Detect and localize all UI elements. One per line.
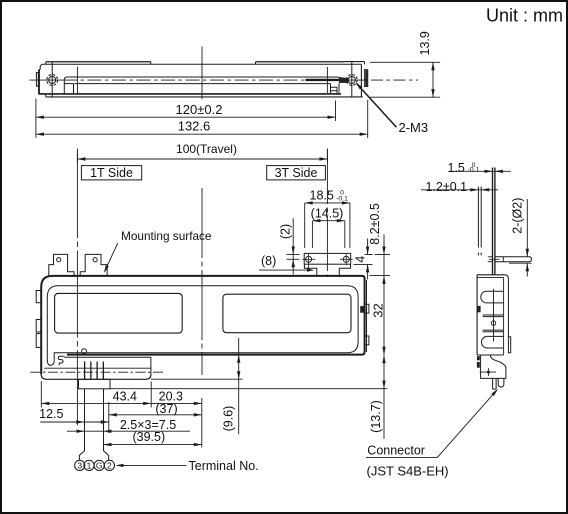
svg-text:18.5: 18.5: [310, 188, 334, 202]
svg-text:(8): (8): [261, 254, 276, 268]
svg-text:32: 32: [370, 303, 385, 317]
svg-text:3T Side: 3T Side: [275, 166, 318, 180]
svg-text:-0.1: -0.1: [468, 167, 480, 174]
svg-text:(9.6): (9.6): [222, 406, 236, 432]
svg-text:12.5: 12.5: [39, 407, 63, 421]
svg-text:Mounting surface: Mounting surface: [121, 229, 212, 243]
svg-text:1T Side: 1T Side: [90, 166, 133, 180]
svg-text:1.5: 1.5: [448, 161, 465, 175]
svg-text:(JST S4B-EH): (JST S4B-EH): [367, 464, 449, 479]
svg-text:(37): (37): [155, 402, 177, 416]
svg-text:1: 1: [87, 461, 92, 471]
svg-text:2: 2: [107, 461, 112, 471]
svg-text:Connector: Connector: [367, 444, 425, 458]
svg-text:13.9: 13.9: [418, 31, 432, 55]
svg-text:132.6: 132.6: [178, 119, 211, 134]
svg-text:(2): (2): [278, 224, 292, 239]
svg-text:Terminal No.: Terminal No.: [189, 459, 259, 473]
svg-text:(39.5): (39.5): [132, 430, 165, 444]
svg-text:G: G: [96, 461, 103, 471]
svg-text:(13.7): (13.7): [369, 400, 383, 433]
svg-text:Unit : mm: Unit : mm: [486, 6, 563, 26]
svg-text:4: 4: [353, 256, 367, 263]
svg-text:20.3: 20.3: [159, 389, 183, 403]
svg-text:1.2±0.1: 1.2±0.1: [426, 180, 468, 194]
svg-text:(14.5): (14.5): [311, 207, 344, 221]
svg-text:2-(Ø2): 2-(Ø2): [511, 198, 525, 234]
svg-text:2-M3: 2-M3: [399, 120, 429, 135]
svg-text:8.2±0.5: 8.2±0.5: [368, 203, 382, 245]
svg-text:43.4: 43.4: [113, 389, 137, 403]
svg-text:3: 3: [77, 461, 82, 471]
svg-text:100(Travel): 100(Travel): [176, 142, 237, 156]
svg-text:120±0.2: 120±0.2: [176, 102, 223, 117]
svg-text:-0.1: -0.1: [336, 196, 348, 203]
